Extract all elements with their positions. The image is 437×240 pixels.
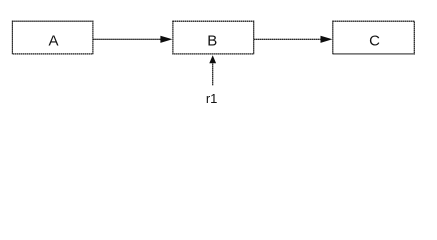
wire arrow B to C [254,36,332,43]
svg-text:A: A [48,33,58,50]
wire arrow r1 into bottom of B [209,55,216,85]
wire arrow A to B [93,36,172,43]
node B [173,21,254,54]
node C [333,21,415,54]
svg-text:C: C [369,33,380,50]
label r1 [206,91,218,106]
svg-text:B: B [207,33,217,50]
node A [12,21,93,54]
svg-text:r1: r1 [206,91,218,106]
